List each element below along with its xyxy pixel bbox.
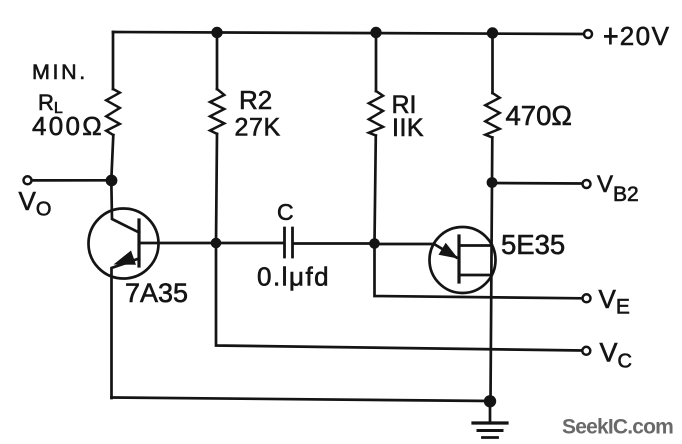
wire VB2 — [492, 182, 582, 185]
svg-text:IIK: IIK — [392, 114, 424, 142]
wire VE — [375, 244, 583, 299]
wire top rail +20V — [113, 32, 584, 34]
resistor R2 leads — [216, 33, 217, 244]
svg-text:MIN.: MIN. — [32, 60, 88, 84]
svg-text:VE: VE — [599, 284, 630, 319]
resistor 470 leads — [491, 33, 494, 183]
terminal VB2 — [583, 180, 591, 188]
terminal VE — [583, 294, 591, 302]
node VO junction — [106, 175, 118, 187]
resistor RL zigzag — [106, 89, 120, 135]
node base Q1 / R2 / C — [211, 238, 222, 249]
node top junction 470 — [487, 27, 498, 38]
wire capacitor to node — [294, 242, 374, 245]
wire bottom rail — [112, 398, 491, 402]
node top junction R1 — [370, 27, 381, 38]
wire B2 Q2 — [459, 244, 492, 247]
ground — [489, 401, 492, 421]
transistor Q2 emitter arrow — [439, 243, 459, 259]
node VB2 junction — [487, 177, 498, 188]
wire B1 Q2 — [459, 274, 491, 277]
resistor RL leads — [111, 32, 113, 180]
wire emitter Q1 — [112, 259, 140, 399]
svg-text:SeekIC.com: SeekIC.com — [562, 416, 673, 439]
node ground junction — [484, 395, 496, 407]
wire VO to RL bottom — [32, 179, 111, 182]
node top junction R2 — [211, 27, 222, 38]
wire base Q1 to node — [139, 242, 216, 245]
terminal VC — [582, 347, 590, 355]
svg-text:7A35: 7A35 — [125, 278, 188, 308]
terminal VO — [24, 176, 32, 184]
node R1 / C / emitter Q2 — [369, 238, 380, 249]
resistor R2 zigzag — [210, 89, 224, 134]
wire node to capacitor — [216, 242, 283, 245]
svg-text:R2: R2 — [239, 85, 272, 115]
svg-text:470Ω: 470Ω — [506, 100, 572, 131]
svg-text:20V: 20V — [620, 21, 671, 51]
capacitor C plates — [285, 228, 293, 257]
svg-text:VO: VO — [19, 186, 52, 221]
terminal +20V — [584, 30, 592, 38]
wire emitter Q2 — [375, 244, 457, 258]
svg-text:400Ω: 400Ω — [32, 111, 104, 141]
svg-text:27K: 27K — [235, 114, 281, 142]
svg-text:0.lμfd: 0.lμfd — [257, 262, 330, 292]
resistor R1 zigzag — [369, 91, 383, 136]
svg-text:5E35: 5E35 — [501, 229, 565, 260]
transistor Q2 base bar — [457, 236, 460, 282]
svg-text:VB2: VB2 — [597, 171, 639, 206]
wire collector Q1 — [111, 180, 139, 232]
transistor Q1 emitter arrow — [114, 251, 137, 265]
resistor 470 zigzag — [485, 93, 499, 138]
transistor Q1 7A35 body — [89, 209, 159, 279]
wire 470 bottom to ground — [491, 183, 493, 402]
svg-text:C: C — [277, 199, 294, 225]
svg-text:VC: VC — [600, 338, 632, 373]
transistor Q2 5E35 body (UJT) — [430, 227, 496, 293]
label +20V plus sign — [604, 28, 618, 45]
wire VC — [216, 243, 582, 351]
resistor R1 leads — [375, 33, 377, 244]
transistor Q1 base bar — [137, 220, 140, 266]
